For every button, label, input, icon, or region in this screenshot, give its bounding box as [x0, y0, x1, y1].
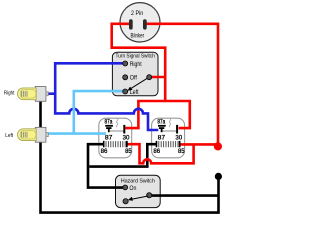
svg-text:Hazard Switch: Hazard Switch [121, 178, 155, 184]
svg-text:Right: Right [130, 62, 142, 68]
svg-text:87a: 87a [157, 119, 165, 126]
svg-text:86: 86 [101, 148, 108, 155]
svg-text:87: 87 [105, 134, 113, 141]
svg-text:Turn Signal Switch: Turn Signal Switch [116, 54, 155, 60]
svg-text:Right: Right [4, 90, 15, 96]
svg-text:On: On [129, 186, 136, 192]
svg-text:85: 85 [178, 148, 185, 155]
svg-text:86: 86 [153, 148, 160, 155]
svg-text:85: 85 [125, 148, 132, 155]
svg-text:30: 30 [175, 134, 182, 141]
svg-text:Blinker: Blinker [131, 34, 145, 40]
svg-text:Left: Left [130, 90, 139, 96]
svg-text:87: 87 [158, 134, 166, 141]
svg-text:Off: Off [130, 76, 137, 82]
svg-text:30: 30 [123, 134, 130, 141]
svg-text:Left: Left [5, 133, 13, 139]
svg-text:87a: 87a [105, 119, 113, 126]
svg-text:2 Pin: 2 Pin [131, 11, 143, 17]
